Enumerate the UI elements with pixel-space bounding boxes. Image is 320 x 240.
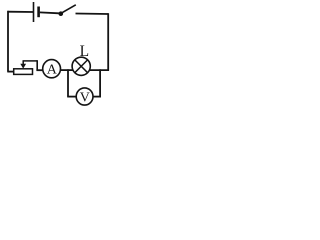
wire voltmeter left horizontal: [67, 96, 76, 98]
svg-text:A: A: [47, 62, 58, 77]
battery cell: short thick plate: [37, 7, 40, 18]
switch S: pivot dot: [59, 11, 64, 16]
svg-text:L: L: [80, 43, 89, 60]
wire right vertical: [107, 13, 109, 71]
rheostat R: wiper arrowhead: [20, 64, 26, 69]
wire to ammeter: [36, 69, 43, 71]
svg-text:V: V: [80, 90, 90, 105]
switch S: open lever arm: [61, 5, 76, 13]
rheostat R: wiper arrow stem: [22, 61, 24, 66]
lamp L: body circle: [72, 57, 90, 75]
wire voltmeter right horizontal: [93, 96, 101, 98]
battery cell: long plate: [33, 2, 35, 22]
wire lamp to right side: [90, 69, 109, 71]
lamp L: cross stroke 2: [75, 60, 88, 73]
wire wiper step down: [36, 60, 38, 70]
wire top-left horizontal: [8, 11, 34, 13]
wire battery to switch: [40, 11, 59, 14]
wire to rheostat left terminal: [7, 71, 13, 73]
wire switch to top-right corner: [76, 13, 109, 16]
wire ammeter to lamp: [60, 69, 72, 71]
wire voltmeter right branch vertical: [99, 69, 101, 96]
wire voltmeter left branch vertical: [67, 69, 69, 96]
rheostat R: resistance box: [14, 69, 33, 75]
lamp L: cross stroke 1: [75, 60, 88, 73]
wire wiper horizontal: [23, 60, 38, 62]
voltmeter V: body circle: [76, 88, 93, 105]
ammeter A: body circle: [43, 60, 61, 78]
wire left vertical: [7, 11, 9, 72]
